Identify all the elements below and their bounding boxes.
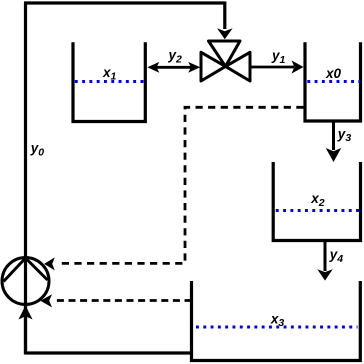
arrow y4: tank x2 drains to tank x3 bbox=[317, 241, 332, 281]
dashed control line from tank x3 to pump bbox=[55, 299, 192, 302]
dashed control line from tank x0 to pump (with corner) bbox=[57, 107, 304, 263]
arrowhead into pump (lower dashed) bbox=[40, 294, 52, 307]
tank x3 bbox=[192, 281, 361, 361]
arrowhead into valve top bbox=[217, 28, 233, 39]
level line x3 (blue dotted) bbox=[196, 326, 358, 329]
level line x1 (blue dotted) bbox=[75, 80, 144, 83]
arrow y3: tank x0 drains to tank x2 bbox=[326, 121, 341, 162]
wire: bottom return pipe from tank x3 to pump riser bbox=[26, 351, 192, 354]
tank x2 bbox=[273, 162, 360, 241]
wire: top run to valve inlet bbox=[24, 1, 225, 4]
arrow y1: valve to tank x0 bbox=[250, 60, 304, 73]
arrowhead into pump (upper dashed) bbox=[44, 257, 55, 270]
arrowhead up into pump from riser bbox=[18, 306, 32, 320]
level line x0 (blue dotted) bbox=[307, 80, 360, 83]
valve U1: three-way valve bbox=[201, 41, 250, 81]
svg-text:x0: x0 bbox=[325, 66, 342, 81]
wire: valve inlet drop bbox=[223, 2, 226, 30]
wire: left riser from bottom pipe up through pump to top bbox=[24, 3, 27, 355]
level line x2 (blue dotted) bbox=[276, 209, 360, 212]
tank x1 bbox=[73, 42, 145, 121]
arrow y2: double-headed between tank x1 and valve bbox=[147, 62, 200, 73]
pump P1: circle with chevron bbox=[2, 258, 49, 355]
tank x0 bbox=[305, 42, 361, 121]
